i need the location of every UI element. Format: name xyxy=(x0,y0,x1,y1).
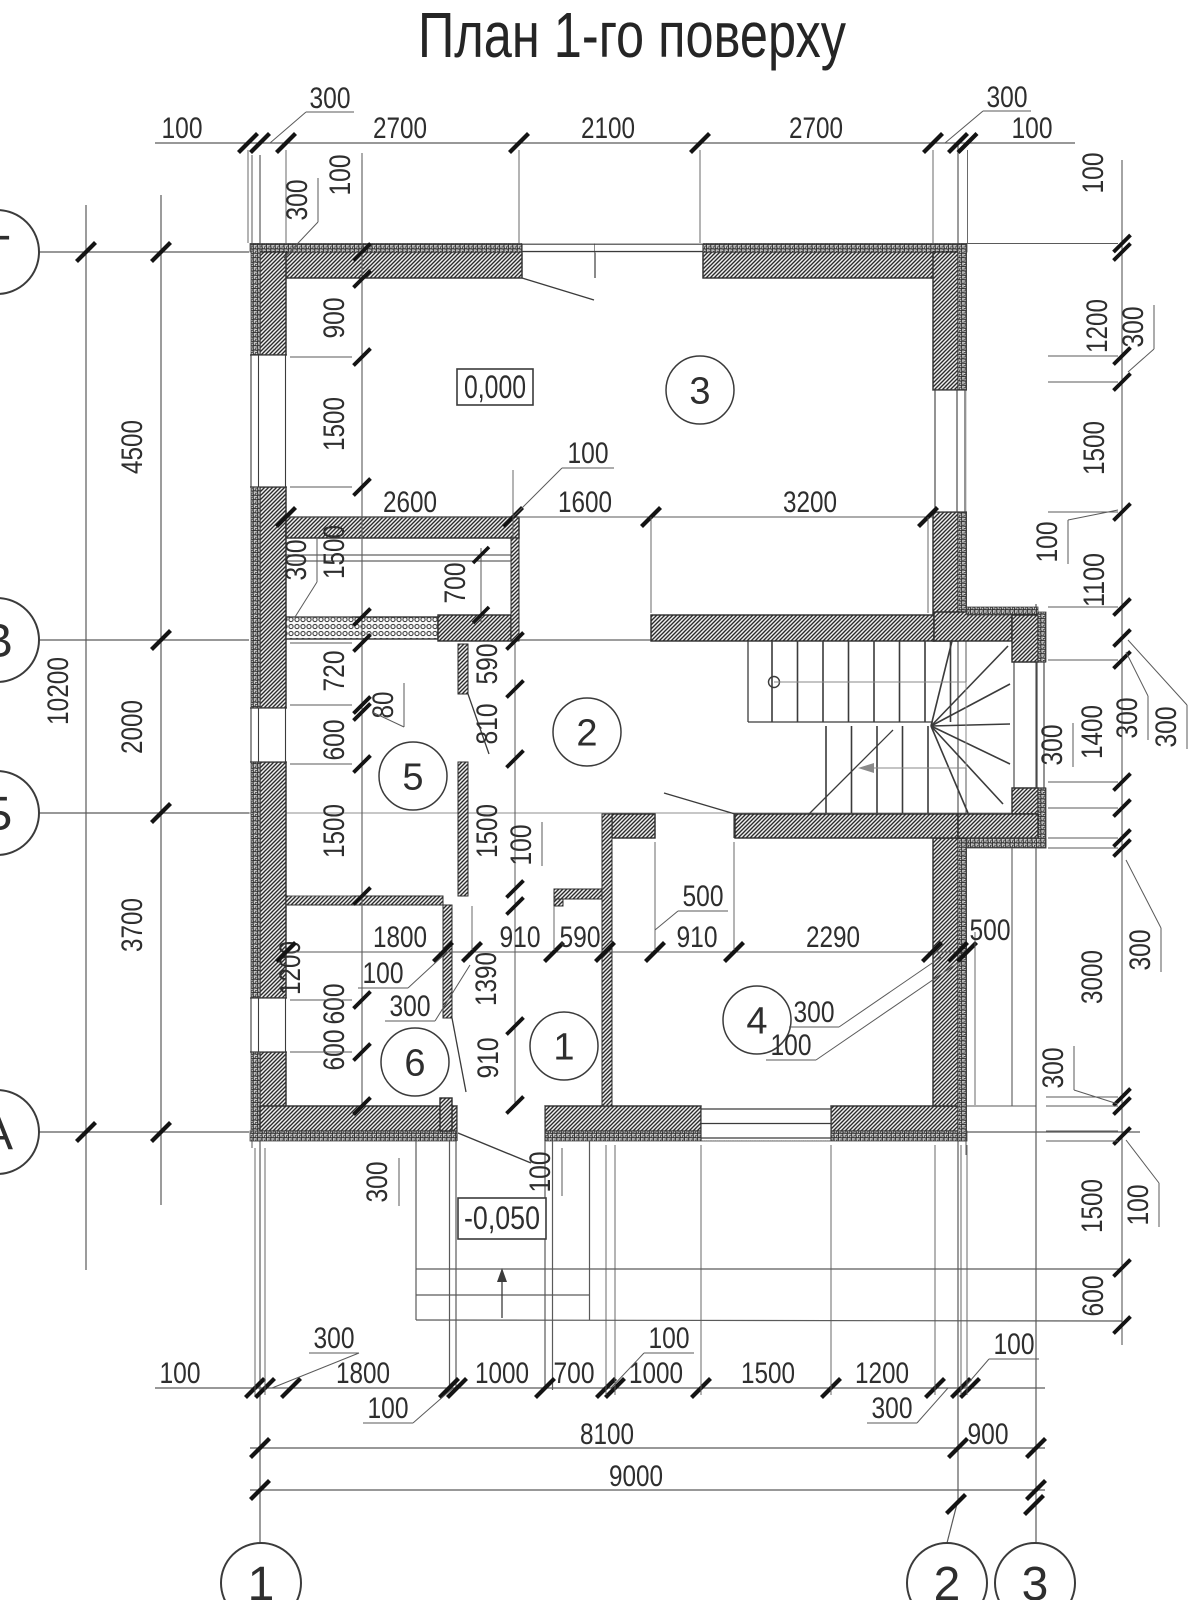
svg-text:500: 500 xyxy=(683,880,724,913)
svg-text:910: 910 xyxy=(472,1038,505,1079)
svg-text:1500: 1500 xyxy=(318,804,351,858)
svg-text:1400: 1400 xyxy=(1076,705,1109,759)
svg-text:8100: 8100 xyxy=(580,1418,634,1451)
svg-text:1500: 1500 xyxy=(741,1357,795,1390)
svg-text:900: 900 xyxy=(318,298,351,339)
svg-text:100: 100 xyxy=(1122,1185,1155,1226)
svg-text:2600: 2600 xyxy=(383,486,437,519)
svg-text:2700: 2700 xyxy=(789,112,843,145)
svg-text:600: 600 xyxy=(318,720,351,761)
svg-text:100: 100 xyxy=(324,155,357,196)
svg-text:1200: 1200 xyxy=(855,1357,909,1390)
svg-text:2100: 2100 xyxy=(581,112,635,145)
svg-text:1800: 1800 xyxy=(373,921,427,954)
svg-text:300: 300 xyxy=(1117,307,1150,348)
svg-text:500: 500 xyxy=(970,914,1011,947)
svg-text:300: 300 xyxy=(361,1162,394,1203)
svg-text:100: 100 xyxy=(994,1328,1035,1361)
svg-text:1500: 1500 xyxy=(1076,1179,1109,1233)
svg-text:80: 80 xyxy=(367,692,400,719)
svg-text:100: 100 xyxy=(1077,153,1110,194)
svg-text:100: 100 xyxy=(162,112,203,145)
svg-text:1000: 1000 xyxy=(475,1357,529,1390)
svg-text:100: 100 xyxy=(568,437,609,470)
svg-text:9000: 9000 xyxy=(609,1460,663,1493)
svg-text:А: А xyxy=(0,1107,13,1160)
svg-text:1: 1 xyxy=(553,1027,574,1069)
svg-text:100: 100 xyxy=(524,1152,557,1193)
svg-text:3200: 3200 xyxy=(783,486,837,519)
svg-text:300: 300 xyxy=(1124,930,1157,971)
svg-text:2290: 2290 xyxy=(806,921,860,954)
svg-text:300: 300 xyxy=(314,1322,355,1355)
svg-text:1200: 1200 xyxy=(1081,299,1114,353)
svg-text:1800: 1800 xyxy=(336,1357,390,1390)
svg-text:910: 910 xyxy=(500,921,541,954)
svg-text:300: 300 xyxy=(280,540,313,581)
svg-text:План 1-го поверху: План 1-го поверху xyxy=(418,0,846,71)
svg-text:2700: 2700 xyxy=(373,112,427,145)
svg-text:100: 100 xyxy=(649,1322,690,1355)
svg-text:1500: 1500 xyxy=(1078,421,1111,475)
svg-text:1600: 1600 xyxy=(558,486,612,519)
svg-text:В: В xyxy=(0,615,13,668)
svg-text:590: 590 xyxy=(471,644,504,685)
svg-text:900: 900 xyxy=(968,1418,1009,1451)
svg-text:1390: 1390 xyxy=(470,952,503,1006)
svg-text:590: 590 xyxy=(560,921,601,954)
svg-text:100: 100 xyxy=(505,825,538,866)
svg-text:100: 100 xyxy=(1012,112,1053,145)
svg-text:300: 300 xyxy=(390,990,431,1023)
svg-text:300: 300 xyxy=(310,82,351,115)
svg-text:300: 300 xyxy=(987,81,1028,114)
svg-text:-0,050: -0,050 xyxy=(464,1200,540,1236)
svg-text:1100: 1100 xyxy=(1078,553,1111,607)
svg-text:300: 300 xyxy=(281,180,314,221)
svg-text:300: 300 xyxy=(872,1392,913,1425)
svg-text:700: 700 xyxy=(554,1357,595,1390)
svg-text:4500: 4500 xyxy=(116,420,149,474)
svg-text:700: 700 xyxy=(439,563,472,604)
svg-text:1500: 1500 xyxy=(318,525,351,579)
svg-text:2: 2 xyxy=(934,1558,961,1600)
svg-text:2000: 2000 xyxy=(116,700,149,754)
svg-text:810: 810 xyxy=(471,704,504,745)
svg-text:100: 100 xyxy=(368,1392,409,1425)
svg-text:910: 910 xyxy=(677,921,718,954)
svg-text:10200: 10200 xyxy=(42,657,75,725)
svg-text:300: 300 xyxy=(794,996,835,1029)
svg-text:300: 300 xyxy=(1111,698,1144,739)
svg-text:600: 600 xyxy=(318,984,351,1025)
svg-text:Б: Б xyxy=(0,788,13,841)
svg-text:3700: 3700 xyxy=(116,898,149,952)
svg-text:100: 100 xyxy=(160,1357,201,1390)
svg-text:2: 2 xyxy=(576,713,597,755)
svg-text:300: 300 xyxy=(1150,707,1183,748)
svg-text:1500: 1500 xyxy=(471,804,504,858)
svg-text:600: 600 xyxy=(1077,1276,1110,1317)
svg-text:1000: 1000 xyxy=(629,1357,683,1390)
svg-text:5: 5 xyxy=(402,757,423,799)
svg-text:Г: Г xyxy=(0,227,10,280)
svg-text:100: 100 xyxy=(363,957,404,990)
svg-text:3000: 3000 xyxy=(1076,950,1109,1004)
svg-text:1: 1 xyxy=(248,1558,275,1600)
svg-text:3: 3 xyxy=(689,371,710,413)
svg-text:300: 300 xyxy=(1036,725,1069,766)
svg-text:100: 100 xyxy=(1031,522,1064,563)
svg-text:300: 300 xyxy=(1037,1048,1070,1089)
svg-text:720: 720 xyxy=(318,651,351,692)
svg-text:600: 600 xyxy=(318,1030,351,1071)
svg-text:1500: 1500 xyxy=(318,397,351,451)
svg-text:4: 4 xyxy=(746,1001,767,1043)
svg-text:6: 6 xyxy=(404,1043,425,1085)
svg-text:100: 100 xyxy=(771,1029,812,1062)
svg-text:3: 3 xyxy=(1022,1558,1049,1600)
svg-text:0,000: 0,000 xyxy=(464,369,526,405)
